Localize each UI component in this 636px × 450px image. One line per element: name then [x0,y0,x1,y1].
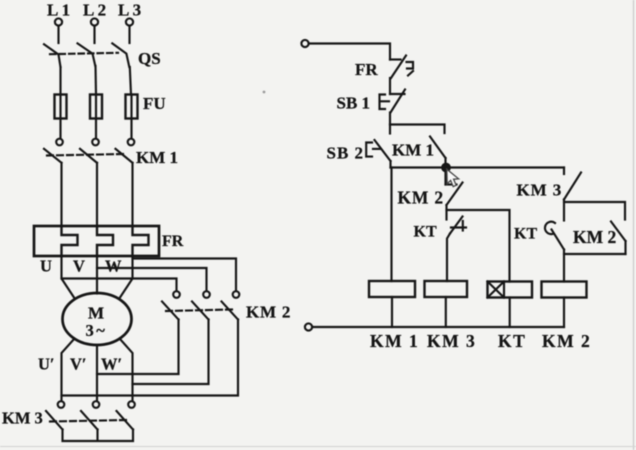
KM2 linkage dashed [166,310,232,312]
coil KM3 [425,281,468,297]
node rail [391,166,565,168]
svg-text:V: V [73,257,85,276]
svg-text:FR: FR [355,60,378,79]
contactor KM3 pole 2 [81,401,99,429]
wire W column to motor [119,256,133,299]
contact KT NO delayed (branch 4) [545,202,564,250]
scan artifact right edge [633,0,635,450]
coil KM1 [369,281,415,297]
wire FR to SB1 [389,78,391,94]
wire L1 drop [57,26,59,43]
wire L3 drop [128,26,130,43]
wire KM1 coil to bus [391,297,393,327]
coil KT (timer) [488,282,533,298]
wire KM1 aux to node [444,158,446,168]
wire KM3 star bus [63,430,134,442]
svg-text:KM 1: KM 1 [370,331,419,351]
contact KM2 aux (NO, right) [611,222,626,242]
svg-text:KM 2: KM 2 [246,303,291,322]
wire L2 drop [93,26,95,43]
wire motor to V' [96,345,98,401]
wire KM1 to FR col1 [60,163,62,226]
contact KM1 aux (NO) [430,137,446,159]
svg-text:KM 1: KM 1 [392,141,434,160]
contactor KM2 pole 3 [222,291,240,319]
wire KM1 coil branch [390,168,392,282]
thermal relay FR box [34,226,159,256]
KM1 linkage dashed [47,154,124,156]
wire U column to motor [62,256,76,299]
junction dot [442,164,450,172]
wire tap V to KM2 pole2 [97,268,207,291]
svg-text:L 1: L 1 [47,1,70,20]
wire tap U to KM2 pole1 [62,279,177,292]
wire to KM2 coil [563,250,565,282]
wire KM1 to FR col3 [131,163,133,226]
svg-text:3~: 3~ [86,321,108,340]
switch QS pole 2 [78,43,96,66]
wire KM2 aux down [624,241,626,254]
wire KM2 pole2 to W' [133,320,209,385]
FR heater element 1 [62,226,78,256]
KM3 linkage dashed [50,420,127,422]
svg-text:KT: KT [514,226,537,243]
wire motor to U' [62,339,75,402]
wire KT coil to bus [509,298,511,328]
svg-text:KM 3: KM 3 [2,409,43,428]
wire KM2 pole3 to U' [62,320,239,396]
wire QS to fuses col2 [94,66,97,95]
switch QS pole 3 [112,43,129,67]
FR heater element 2 [97,226,113,256]
svg-text:U: U [40,257,52,276]
svg-text:L 2: L 2 [83,1,106,20]
contactor KM2 pole 1 [162,291,180,319]
QS linkage dashed [50,53,118,54]
svg-text:W: W [105,257,122,276]
coil KM2 [542,282,587,298]
wire KM2 pole1 to V' [97,320,179,375]
wire SB2 down to node [389,161,391,168]
svg-text:W′: W′ [101,355,122,374]
wire SB1 down [389,113,391,125]
scan artifact bottom edge [0,446,636,448]
contact KM2 NC (branch 2) [446,168,463,206]
svg-text:FR: FR [162,233,184,250]
FR NC contact (control) [390,56,413,79]
contactor KM3 pole 1 [46,401,64,429]
svg-text:KM 3: KM 3 [517,181,563,200]
wire KT rejoin rail [564,253,626,255]
motor M circle [63,293,132,345]
FR heater element 3 [133,226,149,256]
wire QS to fuses col1 [59,67,61,95]
contactor KM1 pole 3 [116,139,135,163]
wire tap W to KM2 pole3 [133,259,237,292]
wire top feed [309,44,390,60]
contactor KM1 pole 1 [44,139,63,163]
wire motor to W' [120,339,133,402]
svg-text:KT: KT [414,224,437,241]
svg-text:U′: U′ [38,355,55,374]
wire fuse2 to KM1 [95,119,97,139]
wire KM2 coil to bus [563,298,565,328]
wire fuse1 to KM1 [59,119,61,139]
terminal control bottom [305,323,312,330]
svg-text:KT: KT [498,331,526,351]
svg-text:SB 1: SB 1 [337,94,371,113]
pushbutton SB1 (NC) [380,90,406,113]
wire QS to fuses col3 [130,67,131,95]
svg-text:KM 2: KM 2 [398,188,444,208]
wire branch to KM1 aux [390,125,445,134]
terminal L1 [55,18,62,25]
svg-text:KM 1: KM 1 [136,148,178,167]
terminal L2 [91,18,98,25]
svg-text:M: M [88,304,104,323]
fuse FU 1 [55,95,67,119]
wire fuse3 to KM1 [130,119,132,139]
wire V column to motor [96,256,98,294]
terminal L3 [126,18,133,25]
svg-text:KM 2: KM 2 [542,331,591,351]
fuse FU 2 [90,95,102,119]
wire branch to KT coil [447,210,510,282]
svg-text:QS: QS [138,49,161,68]
mouse cursor [447,169,459,186]
contactor KM2 pole 2 [192,291,210,319]
svg-text:L 3: L 3 [118,1,141,20]
wire KM3 split [564,200,625,220]
fuse FU 3 [126,95,138,119]
contact KM3 aux (NO, branch 4) [564,168,581,200]
terminal control top [301,40,308,47]
wire KM1 to FR col2 [96,163,98,226]
contactor KM3 pole 3 [117,401,135,429]
svg-text:KM 3: KM 3 [427,331,476,351]
pushbutton SB2 (NO) [366,125,390,162]
wire KM2NC to KT junction [445,205,447,220]
scan speck [263,91,266,94]
svg-text:V′: V′ [70,355,87,374]
svg-text:SB 2: SB 2 [327,144,365,163]
contact KT NC delayed (branch 2) [447,217,466,282]
bottom bus [312,326,564,328]
svg-text:FU: FU [143,94,166,113]
switch QS pole 1 [44,44,61,67]
wire KM3 coil to bus [445,297,447,327]
contactor KM1 pole 2 [80,139,99,163]
svg-text:KM 2: KM 2 [573,227,616,247]
